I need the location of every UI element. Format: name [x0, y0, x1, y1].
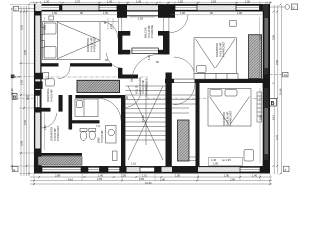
bed 1 (top-left bedroom) — [43, 21, 101, 59]
svg-text:4,10: 4,10 — [68, 177, 74, 181]
svg-text:1,50: 1,50 — [178, 0, 184, 3]
svg-text:2,80: 2,80 — [43, 124, 47, 130]
svg-text:10,40: 10,40 — [145, 181, 152, 185]
svg-text:10,40: 10,40 — [279, 88, 283, 95]
wardrobe hatched bedroom2 — [249, 35, 262, 79]
lower flight lines right strip — [172, 94, 196, 96]
svg-text:P=GRESIE: P=GRESIE — [150, 25, 154, 38]
dressing furniture — [43, 73, 49, 80]
svg-text:15,25: 15,25 — [165, 111, 169, 118]
H1 door arc — [58, 67, 70, 79]
svg-text:2,10: 2,10 — [109, 23, 113, 29]
right dim texts — [272, 34, 283, 140]
ticks right — [273, 4, 282, 175]
top-right marker circle+box — [285, 5, 290, 10]
svg-text:1,50: 1,50 — [245, 0, 251, 3]
svg-text:1,50: 1,50 — [103, 11, 109, 15]
section marker bottom-right — [284, 166, 290, 172]
svg-text:15,25: 15,25 — [130, 75, 134, 82]
top dimension chain — [30, 2, 272, 4]
bottom extension lines — [34, 174, 270, 185]
left dim texts (rotated) — [10, 24, 30, 146]
svg-text:2,90: 2,90 — [230, 177, 236, 181]
svg-text:1,40: 1,40 — [98, 174, 104, 178]
svg-text:3,20: 3,20 — [23, 119, 27, 125]
extension lines top — [34, 1, 270, 5]
svg-text:1,80: 1,80 — [180, 11, 186, 15]
svg-text:E: E — [13, 168, 15, 172]
bed 2 (top-right bedroom) — [194, 38, 237, 74]
svg-text:Fa: Fa — [284, 73, 288, 77]
WC — [80, 129, 87, 132]
balcony door arc — [132, 55, 158, 81]
svg-text:Lp 1,05: Lp 1,05 — [222, 158, 231, 162]
svg-text:1,50: 1,50 — [138, 17, 144, 21]
bedroom3 entry arc — [174, 83, 196, 105]
svg-text:1,80: 1,80 — [237, 11, 243, 15]
top dim texts — [44, 0, 251, 3]
bed 4 (left-middle) — [75, 99, 98, 117]
table bedroom2 — [230, 21, 237, 27]
svg-text:B: B — [271, 101, 275, 107]
H2 hall north walls — [118, 75, 138, 79]
svg-text:1,02: 1,02 — [147, 54, 151, 60]
bedroom2 entry arc — [174, 57, 196, 79]
svg-text:3,60: 3,60 — [272, 34, 276, 40]
svg-text:3,70: 3,70 — [275, 134, 279, 140]
svg-text:F: F — [285, 168, 287, 172]
balcony parapet inner line — [127, 15, 158, 17]
section marker top-left — [14, 6, 35, 11]
left dimension chains — [11, 8, 13, 170]
bed 2 foot bench — [194, 74, 238, 80]
ticks bottom — [33, 176, 271, 185]
svg-text:7 st: 7 st — [96, 124, 100, 128]
svg-text:1,40: 1,40 — [252, 174, 258, 178]
svg-text:1,05: 1,05 — [20, 79, 24, 85]
bottom dim texts — [55, 174, 258, 185]
svg-text:1,30: 1,30 — [44, 0, 50, 3]
svg-text:1,90: 1,90 — [213, 162, 219, 166]
balcony right stub — [163, 31, 170, 54]
interior dimension chains — [42, 15, 262, 163]
piers (solid) — [34, 4, 41, 12]
svg-text:P=PARCHET: P=PARCHET — [93, 36, 97, 52]
svg-text:3,60: 3,60 — [259, 114, 263, 120]
wall y153-156 x34-82 — [38, 153, 82, 156]
wall under shaft — [75, 95, 122, 98]
window in left wall — [35, 96, 40, 108]
svg-text:1,46: 1,46 — [211, 158, 217, 162]
top wall band — [34, 4, 270, 18]
svg-text:S=3,50 MP: S=3,50 MP — [49, 89, 53, 102]
svg-text:3,08: 3,08 — [20, 140, 24, 146]
H4 wall between right bedrooms — [165, 79, 270, 83]
svg-text:3,95: 3,95 — [23, 49, 27, 55]
section marker right B — [269, 99, 276, 107]
svg-text:1,95: 1,95 — [175, 174, 181, 178]
svg-text:15 TR: 15 TR — [141, 115, 145, 122]
left wall radiators — [41, 27, 44, 48]
section marker left small — [11, 75, 34, 79]
svg-text:1,10: 1,10 — [131, 162, 137, 166]
balcony bottom-left: wall above + hatched slab — [38, 153, 82, 165]
bath radiator — [113, 151, 118, 161]
stair door arc — [124, 91, 141, 108]
section marker left B — [12, 94, 34, 100]
V5 bedroom3 west wall — [196, 83, 200, 166]
svg-text:S=5,60 MP: S=5,60 MP — [100, 130, 104, 143]
svg-text:1,10: 1,10 — [142, 174, 148, 178]
V4 stair right wall — [166, 73, 172, 167]
right wall band — [263, 4, 270, 174]
bedroom1 balcony door arc — [101, 22, 118, 39]
windows/railing bottom — [42, 167, 260, 172]
nightstand bed1 — [49, 16, 54, 20]
bidet — [89, 129, 96, 132]
left-bottom room door arc — [42, 113, 57, 128]
bedroom3 radiator right wall — [257, 92, 262, 122]
svg-text:P=PARCHET: P=PARCHET — [56, 125, 60, 141]
svg-text:2,70: 2,70 — [75, 0, 81, 3]
windows in top wall — [41, 5, 260, 10]
left wall band — [34, 4, 43, 174]
svg-text:1,75: 1,75 — [15, 75, 21, 79]
V3 stair left wall — [121, 95, 125, 166]
svg-text:2,98: 2,98 — [55, 174, 61, 178]
hatched slab — [38, 157, 82, 166]
bedroom4 door arc — [98, 98, 122, 121]
V1/V2 balcony C-stub + bedroom1 east wall — [118, 31, 122, 54]
shaft hatched block — [77, 80, 120, 92]
section marker bottom-left — [12, 167, 18, 172]
svg-text:P=PARCHET: P=PARCHET — [144, 78, 148, 94]
svg-text:1,90: 1,90 — [224, 174, 230, 178]
bed 3 (bottom-right bedroom) — [208, 89, 251, 127]
bedroom1 entry door arc — [107, 53, 122, 68]
V dressing wall — [59, 95, 63, 112]
bottom dimension chains — [30, 176, 272, 178]
svg-text:3,55: 3,55 — [259, 34, 263, 40]
svg-text:2,95: 2,95 — [211, 0, 217, 3]
bedroom2 balcony door arc — [170, 15, 188, 33]
hatched band near stair (flight below) — [178, 120, 190, 161]
bottom wall band — [34, 166, 270, 174]
svg-text:3,55: 3,55 — [43, 24, 47, 30]
svg-text:1,40: 1,40 — [107, 0, 113, 3]
svg-text:1,50: 1,50 — [97, 177, 103, 181]
svg-text:2,90: 2,90 — [160, 177, 166, 181]
svg-text:1,45: 1,45 — [136, 0, 142, 3]
bench bedroom3 — [244, 150, 254, 162]
svg-text:3,95: 3,95 — [275, 59, 279, 65]
svg-text:8,20: 8,20 — [26, 94, 30, 100]
ticks top — [36, 2, 272, 4]
svg-text:4,15: 4,15 — [272, 114, 276, 120]
svg-text:2,55: 2,55 — [20, 24, 24, 30]
H1 bedroom1 south wall — [42, 63, 59, 66]
H6 baie north wall — [72, 120, 100, 123]
ticks left — [11, 4, 30, 175]
shower — [106, 126, 117, 144]
svg-text:1,50: 1,50 — [52, 11, 58, 15]
piers bottom — [34, 166, 42, 174]
right dimension chains — [273, 5, 275, 174]
svg-text:P=PARCHET: P=PARCHET — [222, 41, 226, 57]
H5 closet divider left — [34, 108, 51, 112]
balcony door — [132, 48, 158, 54]
svg-text:P=PARCHET: P=PARCHET — [229, 110, 233, 126]
section line B-B jog — [34, 77, 270, 98]
left extension lines — [10, 5, 34, 174]
section marker right — [270, 72, 288, 77]
